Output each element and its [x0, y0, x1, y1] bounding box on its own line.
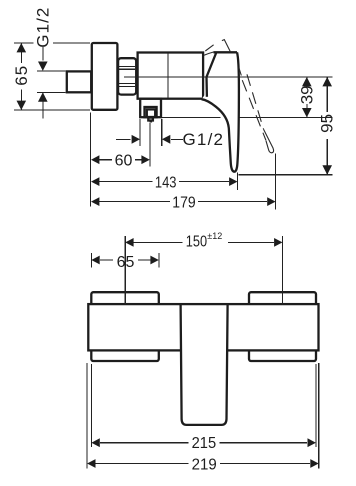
svg-text:G1/2: G1/2: [183, 130, 224, 149]
svg-text:95: 95: [318, 114, 337, 133]
svg-text:219: 219: [192, 456, 217, 473]
svg-text:179: 179: [172, 194, 195, 211]
svg-text:215: 215: [192, 435, 217, 452]
svg-text:39: 39: [298, 85, 317, 104]
svg-text:±12: ±12: [207, 231, 222, 241]
svg-text:60: 60: [115, 153, 133, 170]
svg-text:65: 65: [12, 66, 31, 86]
svg-text:150: 150: [186, 233, 207, 250]
svg-text:65: 65: [117, 254, 135, 271]
svg-text:G1/2: G1/2: [34, 8, 53, 48]
svg-text:143: 143: [155, 174, 177, 191]
